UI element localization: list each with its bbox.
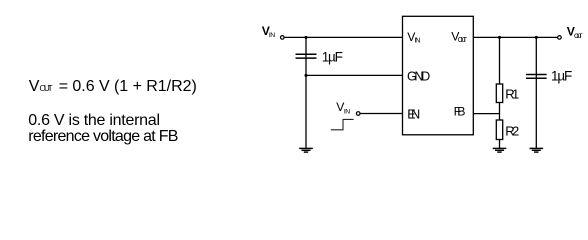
svg-text:R1: R1 [505, 87, 519, 102]
svg-text:0.6 V is the internal: 0.6 V is the internal [28, 112, 160, 129]
svg-text:OUT: OUT [574, 33, 583, 40]
svg-text:reference voltage at FB: reference voltage at FB [28, 128, 178, 145]
svg-text:OUT: OUT [40, 84, 53, 93]
svg-text:GND: GND [407, 70, 430, 84]
svg-text:IN: IN [269, 32, 275, 39]
svg-text:OUT: OUT [458, 37, 468, 44]
svg-text:FB: FB [454, 105, 466, 119]
svg-text:EN: EN [407, 108, 420, 122]
svg-text:IN: IN [344, 109, 350, 116]
svg-text:IN: IN [414, 36, 420, 45]
svg-text:V: V [29, 78, 40, 95]
svg-text:1µF: 1µF [322, 49, 343, 64]
svg-text:= 0.6 V (1 + R1/R2): = 0.6 V (1 + R1/R2) [59, 78, 197, 95]
svg-text:R2: R2 [505, 123, 519, 138]
svg-text:1µF: 1µF [551, 69, 572, 84]
